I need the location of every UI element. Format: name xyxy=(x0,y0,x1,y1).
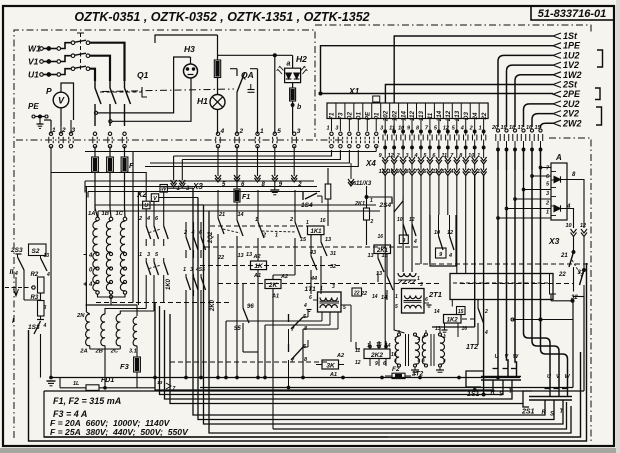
svg-text:15: 15 xyxy=(300,237,307,243)
svg-text:73: 73 xyxy=(338,112,345,119)
svg-text:214: 214 xyxy=(436,110,443,122)
svg-text:F3: F3 xyxy=(120,362,130,371)
svg-text:2W2: 2W2 xyxy=(562,118,582,128)
svg-text:1W2: 1W2 xyxy=(563,70,582,80)
svg-text:3: 3 xyxy=(335,126,338,132)
svg-text:1T2: 1T2 xyxy=(466,344,478,351)
svg-text:1: 1 xyxy=(479,126,482,132)
svg-text:1St: 1St xyxy=(563,31,578,41)
svg-text:1S4: 1S4 xyxy=(301,202,313,209)
svg-text:3: 3 xyxy=(406,153,409,159)
svg-text:Q1: Q1 xyxy=(137,70,149,80)
svg-text:2S3: 2S3 xyxy=(10,247,23,254)
svg-text:4: 4 xyxy=(460,126,464,132)
svg-text:2S4: 2S4 xyxy=(379,202,392,209)
svg-text:2: 2 xyxy=(289,217,293,223)
svg-text:4: 4 xyxy=(46,272,50,278)
svg-text:22: 22 xyxy=(353,291,360,297)
svg-text:6: 6 xyxy=(309,295,312,301)
svg-text:11: 11 xyxy=(427,112,434,119)
svg-text:F = 25A 380V; 440V; 500V;: F = 25A 380V; 440V; 500V; 550V xyxy=(50,427,189,437)
svg-text:21: 21 xyxy=(560,253,568,259)
svg-text:4: 4 xyxy=(449,169,453,175)
svg-text:V1: V1 xyxy=(28,57,39,67)
svg-text:1K1: 1K1 xyxy=(310,229,322,235)
svg-text:2St: 2St xyxy=(562,80,578,90)
svg-text:24: 24 xyxy=(472,112,479,120)
svg-text:3: 3 xyxy=(44,305,47,311)
svg-text:19: 19 xyxy=(501,125,508,131)
svg-text:2K1: 2K1 xyxy=(354,201,365,207)
svg-text:4: 4 xyxy=(448,253,452,259)
svg-text:2T2: 2T2 xyxy=(411,371,424,378)
svg-text:H3: H3 xyxy=(184,44,195,54)
svg-text:14: 14 xyxy=(238,212,244,218)
svg-text:5: 5 xyxy=(343,305,346,311)
svg-text:2T1: 2T1 xyxy=(428,290,442,299)
svg-text:14: 14 xyxy=(372,294,378,300)
svg-text:13: 13 xyxy=(246,252,252,258)
svg-text:W: W xyxy=(565,374,571,380)
svg-text:1T1: 1T1 xyxy=(305,286,317,293)
svg-text:4: 4 xyxy=(566,204,571,210)
svg-text:2U2: 2U2 xyxy=(562,99,580,109)
svg-text:A2: A2 xyxy=(336,353,344,359)
svg-text:PE: PE xyxy=(28,102,39,111)
svg-text:W1: W1 xyxy=(28,44,41,54)
svg-text:1K2: 1K2 xyxy=(447,318,459,324)
svg-text:1: 1 xyxy=(477,153,480,159)
svg-text:14: 14 xyxy=(434,309,440,315)
svg-text:12: 12 xyxy=(388,153,394,159)
svg-text:2: 2 xyxy=(297,182,302,188)
svg-text:A2: A2 xyxy=(253,254,261,260)
svg-text:21: 21 xyxy=(218,212,225,218)
svg-text:X2: X2 xyxy=(136,190,147,199)
svg-text:2A: 2A xyxy=(79,349,87,355)
svg-text:3: 3 xyxy=(546,191,549,197)
svg-text:12: 12 xyxy=(379,169,385,175)
svg-text:13: 13 xyxy=(325,237,331,243)
svg-text:1: 1 xyxy=(370,198,373,204)
svg-text:6: 6 xyxy=(418,358,421,364)
svg-text:H2: H2 xyxy=(296,54,307,64)
svg-text:10: 10 xyxy=(434,230,440,236)
svg-text:5: 5 xyxy=(394,358,397,364)
svg-text:12: 12 xyxy=(580,223,586,229)
svg-text:1: 1 xyxy=(326,126,329,132)
svg-text:13: 13 xyxy=(238,253,244,259)
svg-text:13: 13 xyxy=(376,271,382,277)
svg-text:16: 16 xyxy=(378,234,384,240)
svg-text:1: 1 xyxy=(394,336,397,342)
svg-text:2V2: 2V2 xyxy=(562,109,579,119)
svg-text:01: 01 xyxy=(373,112,380,119)
svg-text:13: 13 xyxy=(368,253,374,259)
svg-text:2K2: 2K2 xyxy=(370,352,383,359)
svg-text:12: 12 xyxy=(355,360,361,366)
svg-text:X4: X4 xyxy=(365,159,376,168)
svg-text:12: 12 xyxy=(447,230,453,236)
svg-text:2N: 2N xyxy=(76,313,85,319)
svg-text:14: 14 xyxy=(381,295,387,301)
svg-text:A1: A1 xyxy=(253,273,261,279)
svg-text:2: 2 xyxy=(469,126,473,132)
svg-text:10: 10 xyxy=(468,153,474,159)
svg-text:4: 4 xyxy=(442,334,446,340)
svg-text:1: 1 xyxy=(306,220,309,226)
svg-text:31: 31 xyxy=(330,251,336,257)
svg-text:95: 95 xyxy=(234,326,241,332)
svg-text:15: 15 xyxy=(535,125,542,131)
svg-text:1: 1 xyxy=(183,267,186,273)
svg-text:1: 1 xyxy=(395,294,398,300)
svg-text:3: 3 xyxy=(380,126,383,132)
svg-text:18: 18 xyxy=(509,125,516,131)
svg-text:1U2: 1U2 xyxy=(563,50,580,60)
svg-text:F1: F1 xyxy=(242,194,250,201)
svg-text:1K0: 1K0 xyxy=(166,278,172,290)
svg-text:16: 16 xyxy=(320,218,326,224)
svg-text:22: 22 xyxy=(558,272,566,278)
svg-text:13: 13 xyxy=(44,253,50,259)
svg-text:4: 4 xyxy=(484,330,488,336)
svg-text:1A: 1A xyxy=(88,211,95,217)
svg-text:V: V xyxy=(58,96,65,106)
svg-text:4: 4 xyxy=(146,216,150,222)
svg-text:1K: 1K xyxy=(254,263,264,270)
svg-text:11: 11 xyxy=(432,169,438,175)
svg-text:A1: A1 xyxy=(271,294,279,300)
svg-text:4: 4 xyxy=(14,271,18,277)
svg-text:2: 2 xyxy=(417,336,421,342)
svg-text:2: 2 xyxy=(239,128,244,135)
svg-text:W: W xyxy=(513,354,519,360)
svg-text:16: 16 xyxy=(526,125,533,131)
svg-text:D1: D1 xyxy=(356,111,363,119)
svg-text:3: 3 xyxy=(147,252,150,258)
svg-text:H1: H1 xyxy=(197,96,208,106)
svg-text:9: 9 xyxy=(402,238,405,244)
svg-text:15: 15 xyxy=(382,253,389,259)
svg-text:11/X3: 11/X3 xyxy=(356,181,372,187)
svg-text:9: 9 xyxy=(375,361,378,367)
svg-text:113: 113 xyxy=(418,111,425,121)
svg-text:W: W xyxy=(161,187,167,193)
svg-text:3.1: 3.1 xyxy=(129,349,137,355)
svg-text:b: b xyxy=(297,104,302,111)
svg-text:43: 43 xyxy=(309,250,316,256)
svg-text:112: 112 xyxy=(409,111,416,121)
svg-text:3: 3 xyxy=(332,284,335,290)
svg-text:102: 102 xyxy=(391,110,398,121)
svg-text:X5: X5 xyxy=(349,181,356,187)
svg-text:71: 71 xyxy=(329,112,336,119)
svg-text:5: 5 xyxy=(443,358,446,364)
svg-text:114: 114 xyxy=(400,111,407,121)
svg-text:5: 5 xyxy=(422,358,425,364)
svg-text:X3: X3 xyxy=(548,236,560,246)
svg-text:2: 2 xyxy=(484,309,488,315)
svg-text:20: 20 xyxy=(491,125,498,131)
svg-text:202: 202 xyxy=(382,110,389,122)
svg-text:212: 212 xyxy=(445,110,452,122)
svg-text:1: 1 xyxy=(320,286,323,292)
svg-text:D2: D2 xyxy=(347,111,354,119)
svg-text:P: P xyxy=(46,86,52,96)
svg-text:D3: D3 xyxy=(463,111,470,119)
svg-text:X1: X1 xyxy=(348,86,360,96)
svg-text:10: 10 xyxy=(388,169,394,175)
svg-text:PE: PE xyxy=(364,111,371,120)
svg-text:6: 6 xyxy=(425,297,428,303)
svg-text:4: 4 xyxy=(43,323,47,329)
svg-text:1V2: 1V2 xyxy=(563,60,579,70)
svg-text:3: 3 xyxy=(420,282,423,288)
svg-text:2: 2 xyxy=(370,219,374,225)
svg-text:2: 2 xyxy=(396,153,400,159)
svg-text:32: 32 xyxy=(330,264,336,270)
svg-text:5: 5 xyxy=(395,304,398,310)
svg-text:3: 3 xyxy=(297,128,301,135)
svg-text:4: 4 xyxy=(413,239,417,245)
svg-text:4: 4 xyxy=(413,153,417,159)
svg-text:1C: 1C xyxy=(116,211,124,217)
svg-text:1: 1 xyxy=(275,233,278,239)
svg-text:F1, F2 = 315 mA: F1, F2 = 315 mA xyxy=(53,396,121,406)
svg-text:a: a xyxy=(287,61,291,68)
svg-text:2: 2 xyxy=(61,127,66,134)
svg-text:U1: U1 xyxy=(28,70,39,80)
svg-text:1PE: 1PE xyxy=(563,41,581,51)
svg-text:10: 10 xyxy=(397,217,403,223)
svg-text:4: 4 xyxy=(88,253,93,259)
svg-text:4: 4 xyxy=(421,334,425,340)
svg-text:22: 22 xyxy=(481,112,488,120)
svg-text:1L: 1L xyxy=(73,381,80,387)
svg-text:A: A xyxy=(555,153,562,162)
svg-text:4: 4 xyxy=(88,282,93,288)
svg-text:2K0: 2K0 xyxy=(210,299,216,312)
svg-text:S2: S2 xyxy=(32,248,40,255)
svg-text:3K: 3K xyxy=(326,363,336,370)
svg-text:2PE: 2PE xyxy=(562,89,581,99)
svg-text:1: 1 xyxy=(477,169,480,175)
svg-text:1: 1 xyxy=(139,252,142,258)
svg-text:51-833716-01: 51-833716-01 xyxy=(538,8,607,20)
svg-text:4: 4 xyxy=(303,303,307,309)
svg-text:10: 10 xyxy=(566,223,572,229)
svg-text:1: 1 xyxy=(546,210,549,216)
svg-text:12: 12 xyxy=(409,217,415,223)
svg-text:OZTK-0351 , OZTK-0352 , OZTK-1: OZTK-0351 , OZTK-0352 , OZTK-1351 , OZTK… xyxy=(74,10,369,24)
svg-text:213: 213 xyxy=(454,110,461,122)
svg-text:4: 4 xyxy=(220,128,225,135)
svg-text:7: 7 xyxy=(173,386,176,392)
svg-text:1: 1 xyxy=(260,128,264,135)
svg-text:5: 5 xyxy=(277,128,281,135)
svg-text:1B: 1B xyxy=(102,211,109,217)
svg-text:2: 2 xyxy=(467,169,471,175)
svg-text:2: 2 xyxy=(262,233,266,239)
svg-text:2: 2 xyxy=(545,201,549,207)
svg-text:96: 96 xyxy=(247,304,254,310)
svg-text:17: 17 xyxy=(518,125,525,131)
svg-text:A1: A1 xyxy=(329,372,337,378)
